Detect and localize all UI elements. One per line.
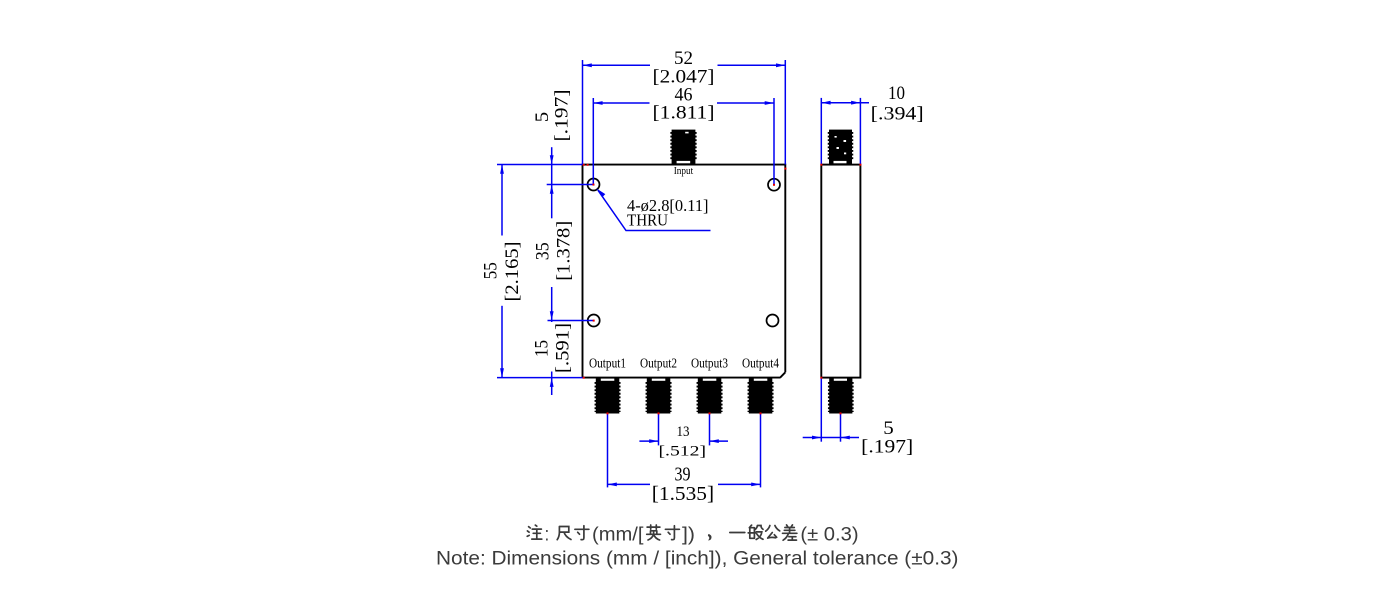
dim 52 extension line left — [582, 60, 584, 165]
kanji 差 — [783, 525, 797, 540]
output connector J1 — [596, 378, 620, 414]
side view top connector — [829, 130, 852, 164]
svg-text:Output1: Output1 — [589, 356, 626, 371]
mounting hole bottom-left — [588, 315, 600, 327]
svg-text:15: 15 — [532, 340, 553, 357]
output connector J3 threads — [697, 382, 721, 412]
kanji 公 — [766, 526, 780, 539]
dim text [.591] rotated — [553, 323, 574, 373]
dim text 39 — [675, 463, 691, 485]
dim 55 arrows — [500, 165, 504, 378]
side view bottom connector — [829, 378, 852, 414]
output connector J1 threads — [595, 382, 619, 412]
kanji 寸 second — [665, 526, 679, 540]
dim 39 extension line right — [760, 414, 762, 488]
dim text 35 rotated — [533, 242, 554, 260]
hole leader arrow — [596, 188, 605, 197]
dim 52 extension line right — [784, 60, 786, 165]
dim 52 arrows — [583, 63, 786, 67]
dim 13 extension line right — [709, 414, 711, 446]
mounting hole top-left — [588, 179, 600, 191]
note line 1 chinese: 注: 尺寸(mm/[英寸]) ，一般公差(± 0.3) — [527, 525, 797, 541]
dim text 13 — [677, 424, 690, 440]
dim 52 line — [583, 64, 786, 66]
label Output2 — [640, 356, 677, 371]
dim 5 top-left extension line — [547, 184, 594, 186]
input connector threads — [671, 132, 696, 160]
dim 15 arrow bottom — [550, 378, 554, 387]
dim 5 arrows — [550, 155, 554, 194]
svg-text:Output4: Output4 — [742, 356, 779, 371]
dim text [2.047] — [653, 67, 715, 88]
svg-text:]): ]) — [682, 524, 695, 546]
dim 15 extension line — [548, 320, 594, 322]
dim 39 arrows — [608, 483, 761, 487]
svg-text:35: 35 — [533, 242, 554, 260]
svg-text:[.197]: [.197] — [552, 90, 573, 142]
kanji 寸 first — [575, 526, 589, 540]
svg-text:(mm/[: (mm/[ — [592, 524, 644, 546]
dim 13 extension line left — [658, 414, 660, 446]
side bottom connector threads — [829, 382, 853, 412]
dim 35 arrow bottom — [550, 311, 554, 320]
dim 55 extension line bottom — [497, 377, 583, 379]
svg-text:13: 13 — [677, 424, 690, 440]
kanji 一 — [730, 532, 745, 534]
svg-text:[.591]: [.591] — [553, 323, 574, 373]
svg-text:39: 39 — [675, 463, 691, 485]
dim 10 line — [821, 102, 869, 104]
dim 39 line segments — [608, 483, 761, 485]
note line 2 english — [436, 548, 959, 570]
svg-text:[1.811]: [1.811] — [653, 103, 715, 124]
label Input — [674, 165, 694, 177]
output connector J3 — [698, 378, 722, 414]
dim 46 line — [593, 102, 774, 104]
dim 55 line — [501, 165, 503, 378]
kanji 英 — [647, 525, 661, 540]
svg-text:[.394]: [.394] — [871, 104, 924, 125]
dim 5 bottom-right extension line left — [820, 378, 822, 442]
output connector J2 — [647, 378, 671, 414]
dim text 46 — [675, 85, 693, 106]
label Output3 — [691, 356, 728, 371]
svg-text:[1.378]: [1.378] — [554, 221, 575, 281]
dim text [1.535] — [652, 484, 714, 505]
dim text 10 — [888, 83, 905, 104]
note line 1 latin parts — [545, 524, 859, 546]
svg-text:10: 10 — [888, 83, 905, 104]
svg-text:THRU: THRU — [627, 211, 668, 230]
kanji 尺 — [557, 527, 571, 540]
dim 55 extension line top — [497, 164, 583, 166]
dim text 52 — [674, 48, 693, 69]
dim text 15 rotated — [532, 340, 553, 357]
dim 46 extension line right — [773, 98, 775, 185]
dim text [.197] top-left rotated — [552, 90, 573, 142]
label Output4 — [742, 356, 779, 371]
kanji 注 — [527, 525, 542, 539]
kanji 般 — [748, 525, 763, 539]
dim text [.197] right — [861, 437, 913, 458]
dim text 5 right — [883, 418, 894, 439]
svg-text:[.512]: [.512] — [659, 444, 707, 460]
svg-text:[2.165]: [2.165] — [502, 242, 523, 302]
svg-text:Note: Dimensions (mm / [inch]): Note: Dimensions (mm / [inch]), General … — [436, 548, 959, 570]
dim 46 extension line left — [592, 98, 594, 185]
mounting hole bottom-right — [767, 315, 779, 327]
dim text 5 top-left rotated — [532, 112, 553, 123]
dim 10 extension line right — [859, 98, 861, 165]
hole callout text 4-ø2.8[0.11] — [627, 196, 709, 215]
dim 13 line segments — [639, 440, 728, 442]
hole leader line — [598, 190, 711, 230]
input connector J0 — [672, 130, 696, 164]
dim 5 / 35 shared line — [551, 147, 553, 395]
svg-text:55: 55 — [481, 262, 502, 279]
mounting hole top-right — [768, 179, 780, 191]
dim text [1.811] — [653, 103, 715, 124]
output connector J2 threads — [646, 382, 670, 412]
output connector J4 — [749, 378, 773, 414]
svg-text::: : — [545, 524, 550, 546]
dim text [1.378] rotated — [554, 221, 575, 281]
dim 5 bottom-right arrows — [812, 436, 850, 440]
front view body outline — [583, 165, 786, 378]
dim text 55 rotated — [481, 262, 502, 279]
dim 5 bottom-right line — [803, 437, 859, 439]
svg-text:Input: Input — [674, 165, 694, 177]
dim 39 extension line left — [607, 414, 609, 488]
svg-text:5: 5 — [532, 112, 553, 123]
dim text [.394] — [871, 104, 924, 125]
dim text [2.165] rotated — [502, 242, 523, 302]
side view body outline — [821, 165, 860, 378]
svg-text:[1.535]: [1.535] — [652, 484, 714, 505]
svg-text:(± 0.3): (± 0.3) — [800, 524, 858, 546]
fullwidth comma — [708, 534, 712, 540]
side top connector threads — [829, 132, 853, 160]
svg-text:Output3: Output3 — [691, 356, 728, 371]
dim 10 extension line left — [820, 98, 822, 165]
dim 46 arrows — [593, 101, 774, 105]
output connector J4 threads — [748, 382, 772, 412]
label Output1 — [589, 356, 626, 371]
dim 5 bottom-right extension line right — [840, 414, 842, 442]
dim text [.512] — [659, 444, 707, 460]
svg-text:[.197]: [.197] — [861, 437, 913, 458]
hole callout text THRU — [627, 211, 668, 230]
svg-text:Output2: Output2 — [640, 356, 677, 371]
dim 13 arrows — [649, 439, 719, 443]
dim 10 arrows — [821, 101, 860, 105]
red endpoint markers — [583, 164, 862, 415]
